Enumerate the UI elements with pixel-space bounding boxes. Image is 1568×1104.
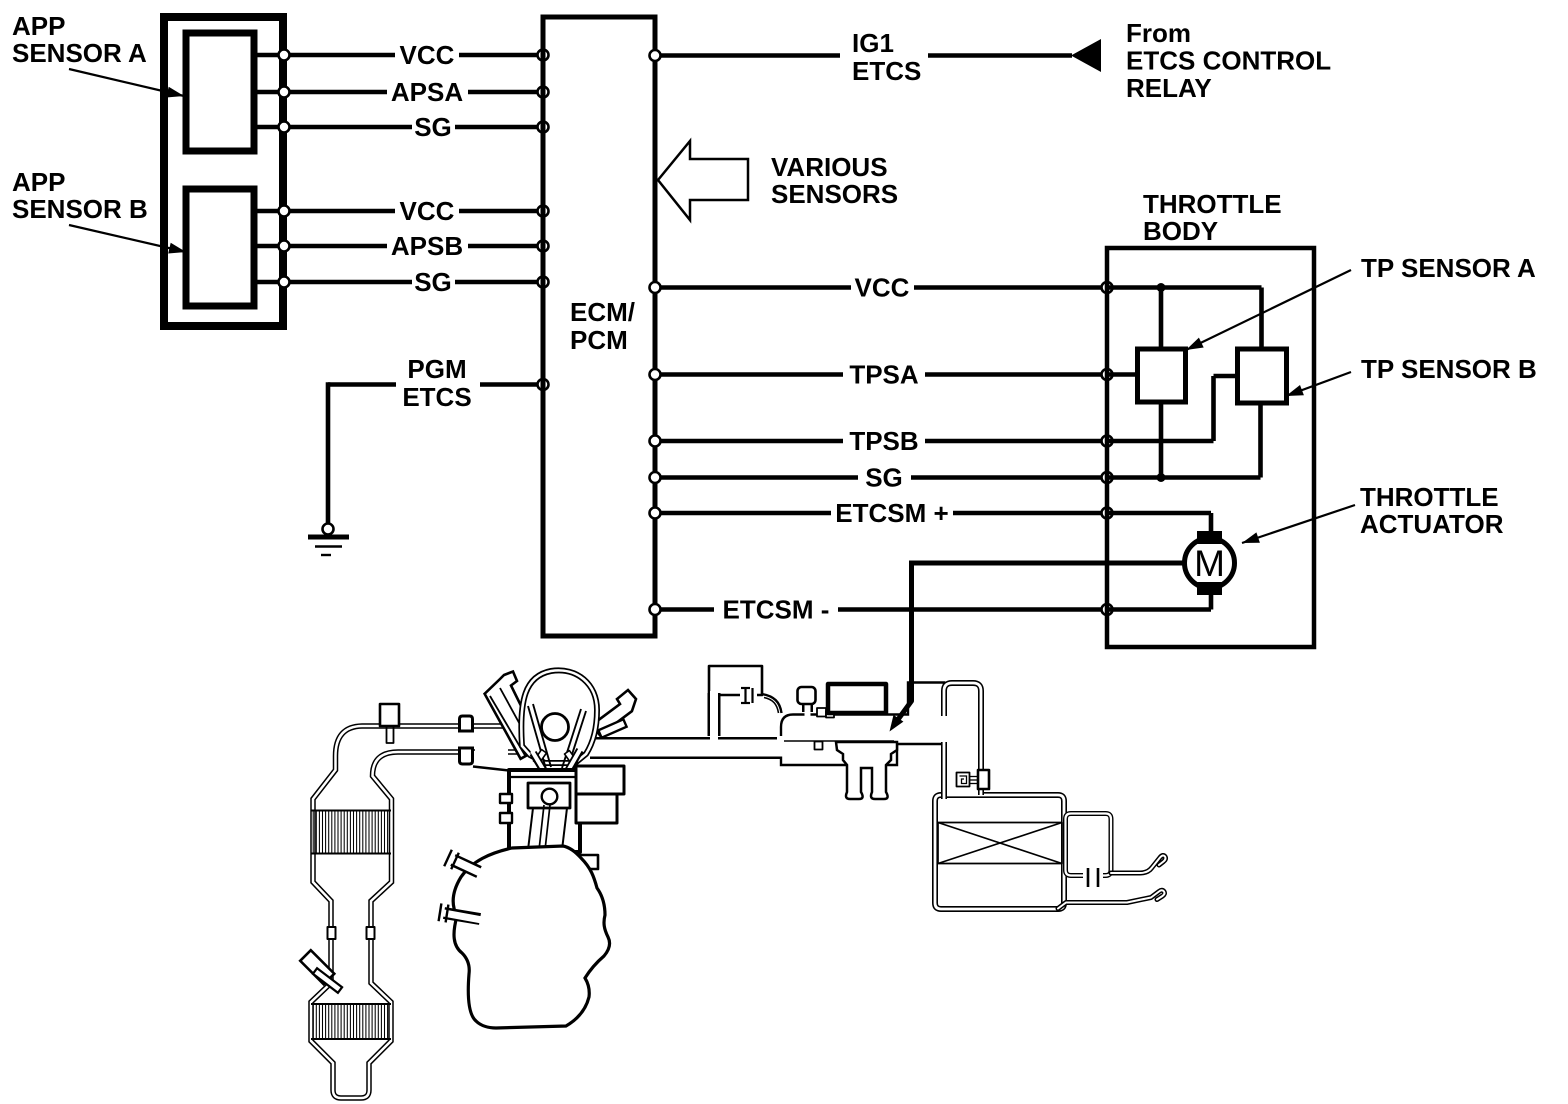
- engine illustration: pipe flange top: [460, 716, 473, 731]
- engine illustration: piston: [528, 783, 570, 808]
- svg-text:SENSORS: SENSORS: [771, 179, 898, 209]
- engine illustration: throttle body section: [944, 683, 981, 799]
- leader arrow to TP sensor A: [1186, 270, 1351, 350]
- pin at ECM right, ETCSM +: [650, 508, 661, 519]
- pin at ECM right, SG: [650, 472, 661, 483]
- svg-text:TPSB: TPSB: [849, 426, 918, 456]
- engine illustration: primary O2 sensor: [380, 704, 399, 726]
- engine illustration: air cleaner box: [935, 795, 1064, 909]
- svg-text:SENSOR A: SENSOR A: [12, 38, 147, 68]
- engine illustration: catalyst element 2: [311, 1003, 391, 1005]
- engine illustration: throttle bore circle: [542, 714, 569, 741]
- svg-text:ACTUATOR: ACTUATOR: [1360, 509, 1504, 539]
- wire VCC to TP sensor A: [1159, 288, 1164, 352]
- engine illustration: exhaust collector: [475, 749, 508, 756]
- engine illustration: duct drain: [815, 742, 823, 750]
- pin at ECM right, VCC: [650, 282, 661, 293]
- leader arrow to TP sensor B: [1286, 372, 1351, 396]
- connector triangle to ETCS control relay: [1071, 39, 1101, 72]
- svg-text:APP: APP: [12, 167, 65, 197]
- engine illustration: cylinder tabs: [500, 794, 512, 803]
- pin at APP box, VCC: [279, 50, 290, 61]
- svg-text:APP: APP: [12, 11, 65, 41]
- pin at throttle body, SG: [1102, 472, 1113, 483]
- engine illustration: upper intake hose: [1111, 855, 1166, 873]
- svg-text:RELAY: RELAY: [1126, 73, 1212, 103]
- svg-text:ETCS: ETCS: [852, 56, 921, 86]
- ground symbol: [308, 535, 349, 540]
- pin at ECM right, TPSA: [650, 369, 661, 380]
- svg-text:PCM: PCM: [570, 325, 628, 355]
- pin at APP box, APSB: [279, 241, 290, 252]
- pin at ECM left, PGM ETCS: [538, 379, 549, 390]
- wire ETCSM + (ECM to throttle body) y=513: [655, 511, 831, 516]
- svg-text:VCC: VCC: [855, 273, 910, 303]
- engine illustration: purge valve: [828, 684, 886, 713]
- svg-text:ECM/: ECM/: [570, 297, 635, 327]
- svg-text:VCC: VCC: [400, 40, 455, 70]
- wire APSA (APP sensor to ECM) y=92: [254, 90, 283, 95]
- svg-text:M: M: [1194, 543, 1225, 584]
- pin at ECM left, VCC: [538, 50, 549, 61]
- wire SG (APP sensor to ECM) y=127: [254, 125, 283, 130]
- pin at throttle body, ETCSM -: [1102, 604, 1113, 615]
- engine illustration: intake plenum: [521, 670, 597, 763]
- wire VCC (APP sensor to ECM) y=211: [254, 209, 283, 214]
- leader arrow to APP sensor A: [69, 69, 184, 96]
- svg-text:APSB: APSB: [391, 231, 463, 261]
- wire VCC (APP sensor to ECM) y=55: [254, 53, 283, 58]
- engine illustration: resonator box: [709, 666, 762, 695]
- APP sensor connector box: [164, 17, 283, 326]
- engine illustration: IAT sensor: [978, 770, 989, 789]
- wire ETCSM- to motor: [1107, 607, 1211, 612]
- wire TPSA to TP sensor A: [1107, 372, 1140, 377]
- svg-text:ETCS: ETCS: [402, 382, 471, 412]
- pin at APP box, SG: [279, 122, 290, 133]
- engine illustration: crankcase stub 2: [444, 913, 480, 919]
- engine illustration: exhaust pipe and catalytic converters: [311, 726, 523, 1098]
- wire VCC inside throttle body: [1107, 285, 1262, 290]
- pin at ECM right, IG1: [650, 50, 661, 61]
- wire TPSB to TP sensor B: [1107, 439, 1214, 444]
- wire VCC (ECM to throttle body) y=287.5: [655, 285, 851, 290]
- ground terminal circle: [323, 524, 334, 535]
- svg-text:BODY: BODY: [1143, 216, 1218, 246]
- engine illustration: crankcase: [453, 846, 610, 1028]
- pin at throttle body, TPSA: [1102, 369, 1113, 380]
- svg-text:THROTTLE: THROTTLE: [1360, 482, 1499, 512]
- TP sensor B box: [1238, 349, 1287, 403]
- pin at APP box, SG: [279, 277, 290, 288]
- wire TPSB (ECM to throttle body) y=441: [655, 439, 843, 444]
- leader arrow to APP sensor B: [69, 225, 186, 252]
- pin at ECM right, TPSB: [650, 436, 661, 447]
- wire SG (ECM to throttle body) y=477.5: [655, 475, 858, 480]
- engine illustration: cylinder: [509, 770, 580, 852]
- engine illustration: exhaust flange: [328, 927, 336, 939]
- wire TP sensor A to SG: [1159, 400, 1164, 478]
- svg-text:ETCS CONTROL: ETCS CONTROL: [1126, 46, 1331, 76]
- wire SG inside throttle body: [1107, 475, 1261, 480]
- engine illustration: catalyst element 1: [311, 810, 391, 812]
- pin at ECM left, SG: [538, 122, 549, 133]
- svg-text:THROTTLE: THROTTLE: [1143, 189, 1282, 219]
- engine illustration: intake chamber: [781, 683, 944, 766]
- pin at APP box, APSA: [279, 87, 290, 98]
- svg-text:APSA: APSA: [391, 77, 463, 107]
- leader arrow to throttle actuator: [1242, 505, 1355, 543]
- pin at ECM left, VCC: [538, 206, 549, 217]
- wire PGM ETCS: [328, 382, 396, 387]
- svg-text:TPSA: TPSA: [849, 360, 919, 390]
- pin at ECM left, APSA: [538, 87, 549, 98]
- svg-text:From: From: [1126, 18, 1191, 48]
- svg-text:ETCSM +: ETCSM +: [835, 498, 948, 528]
- wire motor to throttle plate, lower run (thick): [894, 561, 912, 726]
- svg-text:VARIOUS: VARIOUS: [771, 152, 888, 182]
- wire to ground: [326, 382, 331, 524]
- TP sensor A box: [1138, 349, 1186, 402]
- pin at throttle body, VCC: [1102, 282, 1113, 293]
- engine illustration: exhaust manifold blocks: [576, 766, 624, 794]
- wire IG1 ETCS: [655, 53, 840, 58]
- engine illustration: intake duct: [590, 737, 783, 759]
- junction node SG: [1157, 473, 1166, 482]
- pin at throttle body, TPSB: [1102, 436, 1113, 447]
- wire TP sensor B to SG: [1258, 401, 1263, 478]
- engine illustration: inlet chamber: [1066, 814, 1112, 876]
- pin at throttle body, ETCSM +: [1102, 508, 1113, 519]
- engine illustration: crankcase stub 1: [453, 860, 479, 872]
- wire motor to throttle plate (thick): [909, 561, 1186, 566]
- engine illustration: air filter element: [938, 823, 1062, 864]
- engine illustration: breather hose: [592, 690, 636, 735]
- ECM/PCM box U1: [543, 17, 655, 636]
- wire ETCSM+ to motor: [1107, 511, 1211, 516]
- svg-text:ETCSM -: ETCSM -: [723, 595, 830, 625]
- svg-text:SG: SG: [865, 463, 903, 493]
- engine illustration: pipe flange bottom: [460, 748, 473, 764]
- engine illustration: vacuum stub: [598, 719, 626, 737]
- engine illustration: lower intake hose: [1058, 890, 1165, 908]
- engine illustration: injector bracket: [836, 742, 897, 799]
- engine illustration: secondary O2 sensor: [300, 950, 334, 984]
- pin at ECM left, APSB: [538, 241, 549, 252]
- svg-text:PGM: PGM: [407, 354, 466, 384]
- engine illustration: valves: [528, 706, 546, 769]
- svg-text:SG: SG: [414, 267, 452, 297]
- wire SG (APP sensor to ECM) y=282: [254, 280, 283, 285]
- APP sensor A element: [186, 33, 254, 151]
- wire APSB (APP sensor to ECM) y=246: [254, 244, 283, 249]
- svg-text:TP SENSOR A: TP SENSOR A: [1361, 253, 1536, 283]
- engine illustration: resonator neck: [708, 693, 721, 736]
- VARIOUS SENSORS arrow: [658, 141, 748, 220]
- throttle body box: [1107, 248, 1314, 647]
- svg-text:SG: SG: [414, 112, 452, 142]
- pin at ECM right, ETCSM -: [650, 604, 661, 615]
- throttle actuator motor M1: [1185, 538, 1235, 588]
- svg-text:IG1: IG1: [852, 28, 894, 58]
- engine illustration: intake runner: [485, 672, 542, 759]
- APP sensor B element: [186, 189, 254, 306]
- engine illustration: intake V runners: [533, 753, 545, 773]
- engine illustration: map sensor: [802, 702, 813, 712]
- svg-text:VCC: VCC: [400, 196, 455, 226]
- wire TPSA (ECM to throttle body) y=374.5: [655, 372, 843, 377]
- pin at ECM left, SG: [538, 277, 549, 288]
- junction node VCC: [1157, 283, 1166, 292]
- pin at APP box, VCC: [279, 206, 290, 217]
- svg-text:TP SENSOR B: TP SENSOR B: [1361, 354, 1537, 384]
- engine illustration: inlet mark: [1083, 869, 1103, 882]
- wire ETCSM - (ECM to throttle body) y=609.5: [655, 607, 714, 612]
- svg-text:SENSOR B: SENSOR B: [12, 194, 148, 224]
